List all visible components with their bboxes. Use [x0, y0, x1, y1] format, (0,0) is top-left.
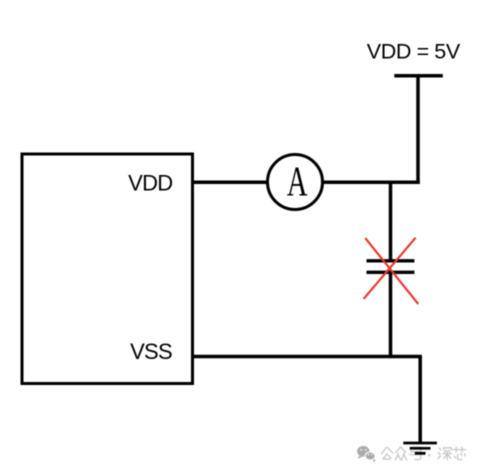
glyph 号	[411, 447, 421, 452]
wire ammeter to supply node	[322, 180, 420, 184]
wire VSS pin to ground branch	[193, 355, 422, 359]
glyph 公	[382, 448, 387, 454]
wire capacitor to VSS net	[389, 272, 393, 358]
wire supply bar down to VDD net	[416, 76, 420, 184]
glyph 芯	[453, 449, 466, 451]
supply label VDD = 5V	[367, 39, 461, 63]
svg-text:VSS: VSS	[130, 339, 172, 364]
svg-text:VDD = 5V: VDD = 5V	[367, 39, 461, 63]
wire down to ground	[418, 357, 422, 443]
svg-text:VDD: VDD	[128, 171, 172, 196]
pin label VSS	[130, 339, 172, 364]
red delete cross over capacitor	[364, 238, 419, 304]
watermark logo chat bubbles	[357, 446, 375, 463]
ground	[403, 443, 437, 453]
watermark text 公众号 · 深芯	[382, 447, 466, 460]
middle dot	[428, 454, 430, 456]
supply rail bar	[394, 74, 443, 78]
capacitor C1 bottom plate	[367, 271, 415, 274]
IC box U1	[22, 154, 193, 384]
pin label VDD	[128, 171, 172, 196]
capacitor C1 top plate	[367, 259, 415, 262]
glyph 众	[396, 447, 401, 453]
glyph 深	[439, 448, 441, 450]
ammeter A1	[268, 155, 323, 210]
svg-text:A: A	[287, 158, 308, 205]
wire VDD pin to ammeter	[193, 180, 269, 184]
wire VDD net down to capacitor	[389, 181, 393, 262]
